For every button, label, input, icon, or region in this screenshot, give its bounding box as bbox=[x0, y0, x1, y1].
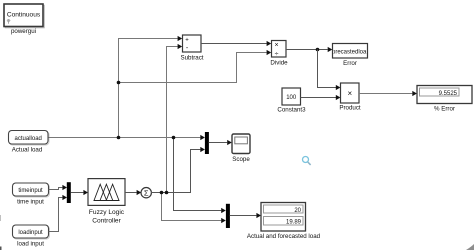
constant block Constant3 (100) bbox=[277, 88, 306, 114]
to-workspace block Error (forecastedload) bbox=[330, 44, 369, 68]
corner smudge bottom-right bbox=[466, 244, 474, 250]
display block Actual and forecasted load bbox=[247, 203, 321, 241]
svg-text:9.5525: 9.5525 bbox=[439, 91, 458, 97]
wire Fuzzy Logic Controller to Sum bbox=[125, 190, 141, 195]
svg-text:Constant3: Constant3 bbox=[277, 107, 306, 114]
svg-text:load input: load input bbox=[17, 241, 44, 248]
mux Mux (inputs for fuzzy controller) bbox=[67, 182, 71, 203]
svg-text:×: × bbox=[275, 42, 279, 49]
wire branch divide-out down to Product input 1 bbox=[318, 50, 341, 91]
svg-text:×: × bbox=[347, 89, 352, 98]
mux Mux2 (display inputs) bbox=[226, 204, 230, 228]
svg-text:20: 20 bbox=[294, 208, 301, 214]
wire Mux1 to Scope bbox=[209, 140, 232, 145]
powergui block U1 bbox=[4, 4, 44, 35]
wire Constant3 to Product input 2 bbox=[301, 95, 341, 100]
wire Product to %Error display bbox=[359, 91, 417, 96]
svg-text:Fuzzy Logic: Fuzzy Logic bbox=[89, 209, 125, 216]
wire Divide out to Error block bbox=[286, 47, 332, 52]
wire timeinput to Mux bbox=[49, 185, 68, 190]
wire Subtract out to Divide numerator bbox=[201, 41, 271, 46]
svg-text:timeinput: timeinput bbox=[18, 188, 43, 194]
wire actualload to Mux1 (scope mux) with branches bbox=[49, 135, 205, 140]
svg-text:Error: Error bbox=[343, 60, 357, 67]
node junction actualload/mux2 bbox=[172, 136, 176, 140]
svg-text:÷: ÷ bbox=[275, 51, 279, 58]
svg-text:forecastedload: forecastedload bbox=[330, 50, 369, 56]
svg-text:Product: Product bbox=[339, 105, 361, 112]
svg-text:100: 100 bbox=[286, 95, 297, 101]
edge mark left bbox=[0, 215, 1, 221]
node junction actualload/subtract bbox=[117, 136, 121, 140]
subtract block bbox=[180, 35, 203, 62]
svg-text:Scope: Scope bbox=[232, 156, 250, 163]
svg-text:Actual load: Actual load bbox=[12, 147, 43, 154]
svg-text:19.89: 19.89 bbox=[286, 220, 302, 226]
wire branch sum-out up to Subtract minus input bbox=[167, 44, 183, 193]
svg-text:actualload: actualload bbox=[15, 136, 42, 142]
svg-text:loadinput: loadinput bbox=[18, 230, 43, 236]
wire branch actualload to Divide denominator bbox=[119, 50, 272, 83]
svg-text:Subtract: Subtract bbox=[180, 55, 203, 62]
svg-text:+: + bbox=[185, 37, 189, 43]
svg-text:% Error: % Error bbox=[434, 106, 455, 113]
svg-text:Σ: Σ bbox=[144, 189, 149, 198]
product block bbox=[339, 83, 361, 112]
svg-text:Divide: Divide bbox=[270, 60, 288, 67]
wire Mux to Fuzzy Logic Controller bbox=[71, 190, 88, 195]
wire branch sum-out down to Mux2 input 2 bbox=[162, 193, 226, 224]
node junction sum/subtract bbox=[165, 191, 169, 195]
svg-text:Continuous: Continuous bbox=[7, 12, 41, 19]
wire branch actualload up to Subtract plus input bbox=[119, 36, 183, 138]
svg-text:time input: time input bbox=[17, 199, 44, 206]
sum block (round, sigma) bbox=[141, 188, 151, 198]
svg-text:Controller: Controller bbox=[92, 218, 121, 225]
corner mark bottom-left bbox=[0, 247, 2, 250]
node junction divide-out/product bbox=[316, 48, 320, 52]
fuzzy logic controller block bbox=[88, 179, 125, 225]
divide block bbox=[270, 41, 288, 67]
display block %Error bbox=[417, 86, 472, 113]
from-workspace block actualload bbox=[9, 131, 50, 154]
svg-text:Actual and forecasted load: Actual and forecasted load bbox=[247, 233, 321, 240]
from-workspace block timeinput bbox=[13, 183, 50, 206]
from-workspace block loadinput bbox=[13, 225, 50, 248]
mux Mux1 (scope inputs) bbox=[205, 132, 209, 154]
wire loadinput to Mux bbox=[49, 195, 68, 232]
scope block bbox=[232, 134, 250, 163]
wire Mux2 to Display bbox=[230, 213, 261, 218]
wire Sum out with elbow up to Mux1 input 2 bbox=[151, 147, 205, 193]
node junction divide branch bbox=[117, 81, 121, 85]
node junction sum/mux2 bbox=[160, 191, 164, 195]
wire branch actualload down to Mux2 input 1 bbox=[174, 138, 226, 214]
zoom cursor icon bbox=[303, 157, 311, 165]
svg-text:powergui: powergui bbox=[11, 28, 36, 35]
